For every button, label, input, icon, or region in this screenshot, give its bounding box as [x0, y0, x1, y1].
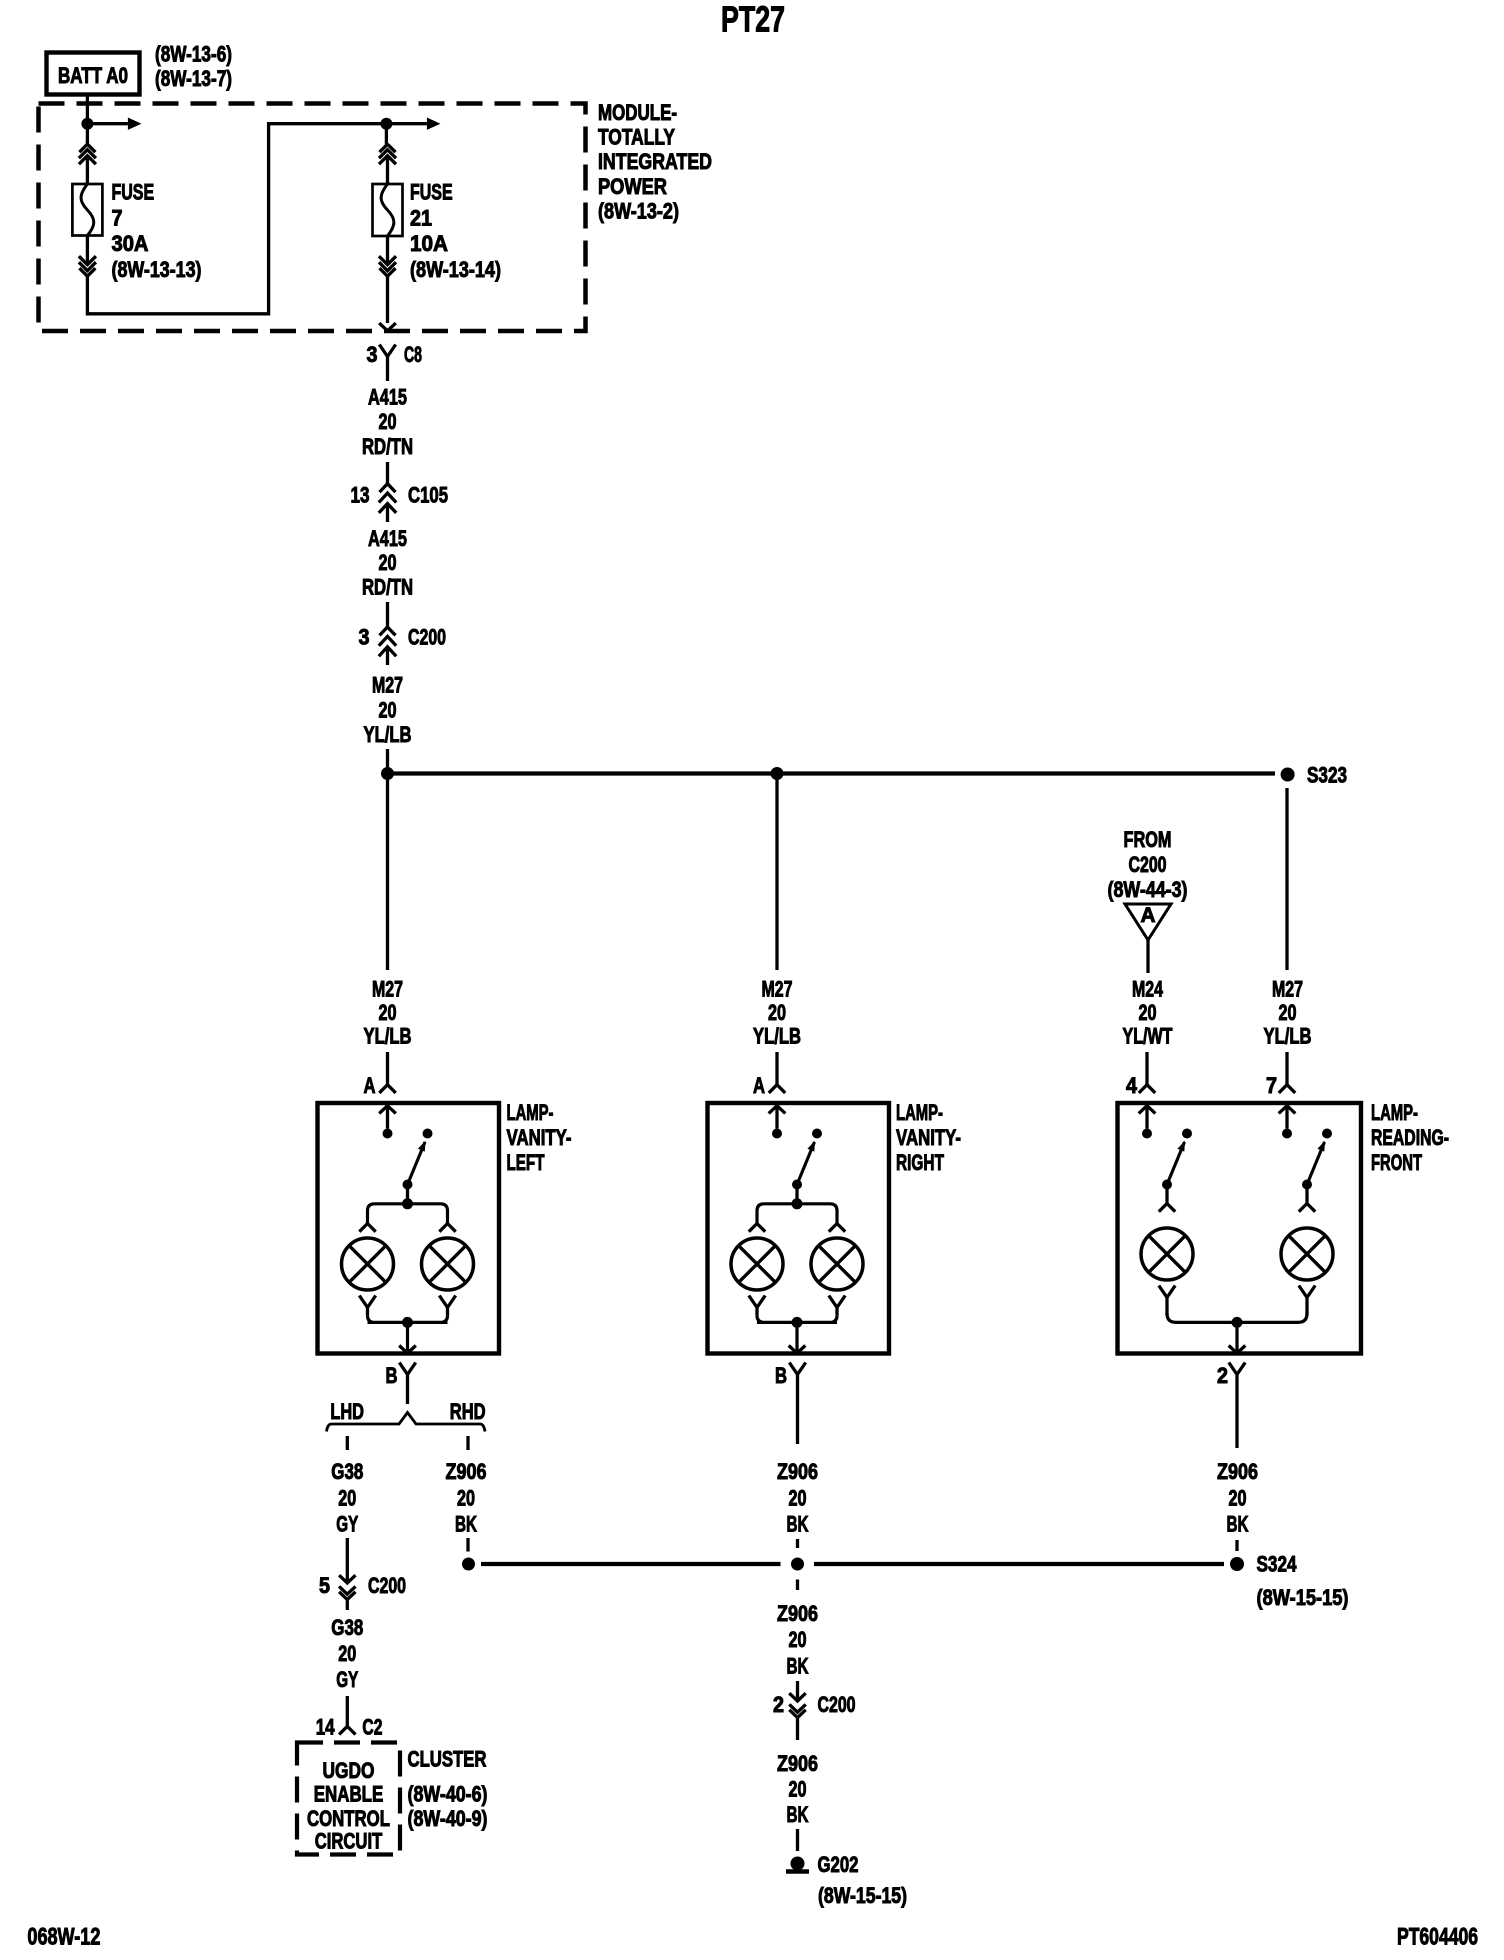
- arrow out of module at C8: [379, 323, 396, 331]
- svg-text:C200: C200: [368, 1573, 406, 1598]
- wire below fuse 21: [386, 236, 389, 265]
- node junction left: [381, 767, 394, 780]
- svg-text:(8W-40-9): (8W-40-9): [408, 1806, 488, 1831]
- svg-text:C105: C105: [408, 483, 448, 508]
- connector pin A vanity right: [769, 1085, 785, 1093]
- wire BATT A0 down to junction: [86, 95, 89, 145]
- svg-text:C200: C200: [1129, 852, 1167, 877]
- connector chevrons below fuse 7: [79, 268, 95, 276]
- lamp reading front internals switch 2: [1279, 1106, 1296, 1114]
- wire to pin 4 reading lamp: [1145, 1052, 1148, 1085]
- svg-text:20: 20: [379, 550, 397, 575]
- svg-text:PT604406: PT604406: [1397, 1924, 1478, 1951]
- svg-text:LHD: LHD: [330, 1399, 364, 1424]
- connector C200 pin 2: [789, 1693, 805, 1701]
- lamp reading front internals switch 1: [1139, 1106, 1156, 1114]
- svg-text:A: A: [364, 1073, 376, 1098]
- svg-text:B: B: [775, 1363, 787, 1388]
- wire down to C200: [386, 602, 389, 627]
- svg-text:068W-12: 068W-12: [27, 1924, 100, 1951]
- svg-text:UGDO: UGDO: [323, 1758, 375, 1783]
- ground G202: [791, 1857, 805, 1871]
- wire stub above S324: [796, 1539, 799, 1548]
- wire below C105: [386, 504, 389, 523]
- svg-text:A: A: [753, 1073, 765, 1098]
- svg-text:G38: G38: [331, 1615, 363, 1640]
- svg-text:14: 14: [316, 1715, 336, 1740]
- svg-text:20: 20: [1229, 1486, 1247, 1511]
- wire stub LHD: [346, 1436, 349, 1450]
- svg-text:30A: 30A: [112, 231, 149, 256]
- tap arrow right (feed continues): [87, 122, 128, 125]
- svg-text:FUSE: FUSE: [112, 180, 155, 205]
- wire into fuse 7: [86, 156, 89, 184]
- svg-text:21: 21: [410, 205, 432, 230]
- svg-text:20: 20: [789, 1486, 807, 1511]
- svg-text:CIRCUIT: CIRCUIT: [315, 1829, 383, 1854]
- node junction RHD: [462, 1558, 475, 1571]
- svg-text:13: 13: [351, 483, 370, 508]
- lamp vanity right box: [708, 1103, 890, 1354]
- svg-text:TOTALLY: TOTALLY: [598, 125, 675, 150]
- svg-text:A: A: [1141, 904, 1156, 927]
- svg-text:2: 2: [773, 1692, 784, 1717]
- wire down to C200 pin 2: [796, 1681, 799, 1700]
- svg-text:CLUSTER: CLUSTER: [408, 1747, 487, 1772]
- svg-text:20: 20: [789, 1627, 807, 1652]
- svg-text:INTEGRATED: INTEGRATED: [598, 149, 712, 174]
- svg-text:M27: M27: [1272, 977, 1303, 1002]
- svg-text:FROM: FROM: [1124, 827, 1172, 852]
- wire below C200: [386, 647, 389, 665]
- wire stub RHD: [466, 1436, 469, 1450]
- wire to pin A vanity left: [386, 1052, 389, 1085]
- off-page connector triangle A: [1125, 904, 1171, 940]
- connector C105 pin 13: [380, 484, 396, 492]
- lamp vanity left box: [318, 1103, 500, 1354]
- svg-text:(8W-15-15): (8W-15-15): [818, 1883, 907, 1908]
- svg-text:BK: BK: [1227, 1512, 1249, 1537]
- svg-text:FRONT: FRONT: [1371, 1150, 1422, 1175]
- svg-text:BATT A0: BATT A0: [58, 63, 128, 88]
- connector chevrons above fuse 7: [79, 144, 95, 152]
- svg-text:A415: A415: [368, 526, 407, 551]
- svg-text:BK: BK: [787, 1654, 809, 1679]
- svg-text:(8W-13-2): (8W-13-2): [598, 198, 679, 223]
- node splice S324: [1230, 1557, 1244, 1571]
- node junction middle: [771, 767, 784, 780]
- svg-text:YL/LB: YL/LB: [364, 1024, 412, 1049]
- svg-text:YL/LB: YL/LB: [364, 722, 412, 747]
- wire fuse 7 output routed to fuse 21 feed: [87, 124, 382, 314]
- splice S323 bus wire: [388, 771, 1276, 775]
- connector chevrons below fuse 21: [380, 268, 396, 276]
- wire below fuse 7: [86, 236, 89, 265]
- module - totally integrated power (dashed box): [39, 104, 586, 332]
- svg-text:C2: C2: [362, 1715, 382, 1740]
- svg-text:20: 20: [1139, 1000, 1157, 1025]
- wire down to C105: [386, 462, 389, 484]
- svg-text:BK: BK: [787, 1802, 809, 1827]
- svg-text:BK: BK: [455, 1512, 477, 1537]
- svg-text:M27: M27: [372, 673, 403, 698]
- wire to module edge: [386, 276, 389, 323]
- wire bus down to vanity left: [386, 774, 389, 971]
- splice S324 bus wire left: [481, 1562, 781, 1566]
- svg-text:(8W-13-7): (8W-13-7): [155, 66, 232, 91]
- wire to pin 7 reading lamp: [1285, 1052, 1288, 1085]
- wire into fuse 21: [386, 156, 389, 184]
- node junction at battery feed: [81, 118, 93, 130]
- svg-text:4: 4: [1126, 1073, 1138, 1098]
- svg-text:3: 3: [367, 342, 378, 367]
- svg-text:POWER: POWER: [598, 174, 667, 199]
- svg-text:(8W-13-6): (8W-13-6): [155, 42, 232, 67]
- svg-text:LEFT: LEFT: [507, 1150, 545, 1175]
- wire stub below S324: [796, 1580, 799, 1591]
- svg-text:VANITY-: VANITY-: [896, 1125, 961, 1150]
- svg-text:Z906: Z906: [1217, 1459, 1258, 1484]
- lamp vanity right internals (switch and bulbs): [769, 1106, 786, 1114]
- wire junction down: [385, 124, 388, 145]
- wire triangle down: [1146, 940, 1149, 973]
- svg-text:7: 7: [112, 205, 123, 230]
- svg-text:20: 20: [457, 1486, 475, 1511]
- svg-text:20: 20: [1279, 1000, 1297, 1025]
- tap arrow right at fuse 21 feed: [386, 122, 427, 125]
- wire below C200 pin 2: [796, 1729, 799, 1740]
- cluster UGDO dashed box: [297, 1743, 400, 1855]
- svg-text:C200: C200: [818, 1692, 856, 1717]
- svg-text:YL/LB: YL/LB: [753, 1024, 801, 1049]
- svg-text:5: 5: [319, 1573, 330, 1598]
- svg-text:FUSE: FUSE: [410, 180, 453, 205]
- svg-text:20: 20: [338, 1641, 356, 1666]
- wire G38 to C2: [346, 1696, 349, 1726]
- svg-text:20: 20: [338, 1486, 356, 1511]
- wire vanity right B down: [796, 1404, 799, 1444]
- connector C200 pin 3: [380, 627, 396, 635]
- svg-text:BK: BK: [787, 1512, 809, 1537]
- svg-text:M24: M24: [1132, 977, 1164, 1002]
- wire reading lamp pin 2 down: [1235, 1404, 1238, 1448]
- connector pin B vanity right: [789, 1363, 805, 1405]
- svg-text:Z906: Z906: [777, 1459, 818, 1484]
- svg-text:A415: A415: [368, 385, 407, 410]
- wire S323 down to reading lamp: [1285, 788, 1288, 970]
- wire to pin A vanity right: [775, 1052, 778, 1085]
- wire G38 down to C200: [346, 1538, 349, 1582]
- svg-text:20: 20: [379, 1000, 397, 1025]
- svg-text:RHD: RHD: [450, 1399, 486, 1424]
- svg-text:(8W-13-13): (8W-13-13): [112, 257, 202, 282]
- LHD RHD selector bracket: [327, 1413, 486, 1432]
- svg-text:VANITY-: VANITY-: [507, 1125, 572, 1150]
- svg-text:CONTROL: CONTROL: [307, 1806, 390, 1831]
- svg-text:20: 20: [379, 409, 397, 434]
- lamp reading front box: [1118, 1103, 1362, 1354]
- wire C8 to label: [386, 369, 389, 382]
- svg-text:G38: G38: [331, 1459, 363, 1484]
- svg-text:10A: 10A: [410, 231, 448, 256]
- fuse F21 10A: [373, 184, 403, 236]
- connector C2 pin 14: [339, 1726, 355, 1734]
- svg-text:3: 3: [359, 625, 370, 650]
- svg-text:GY: GY: [336, 1667, 358, 1692]
- lamp reading front bottom bar: [1167, 1313, 1307, 1322]
- wire to ground G202: [796, 1829, 799, 1851]
- svg-text:LAMP-: LAMP-: [896, 1100, 943, 1125]
- svg-text:C200: C200: [408, 625, 446, 650]
- connector pin 2 reading lamp: [1229, 1363, 1245, 1405]
- node junction vanity right ground: [791, 1558, 804, 1571]
- svg-text:C8: C8: [404, 342, 422, 367]
- svg-text:YL/WT: YL/WT: [1123, 1024, 1173, 1049]
- connector C8 pin 3: [379, 345, 395, 369]
- svg-text:Z906: Z906: [777, 1601, 818, 1626]
- connector chevrons above fuse 21: [380, 144, 396, 152]
- svg-text:(8W-13-14): (8W-13-14): [410, 257, 501, 282]
- svg-text:20: 20: [768, 1000, 786, 1025]
- svg-text:MODULE-: MODULE-: [598, 100, 677, 125]
- lamp vanity left internals (switch and bulbs): [379, 1106, 396, 1114]
- wire RHD down to splice: [466, 1538, 469, 1552]
- fuse F7 30A: [72, 184, 102, 236]
- battery feed box BATT A0: [47, 53, 140, 95]
- connector pin A vanity left: [379, 1085, 395, 1093]
- svg-text:YL/LB: YL/LB: [1264, 1024, 1312, 1049]
- connector C200 pin 5: [339, 1575, 355, 1583]
- svg-text:M27: M27: [372, 977, 403, 1002]
- connector pin 7 reading lamp: [1279, 1085, 1295, 1093]
- svg-text:ENABLE: ENABLE: [314, 1782, 384, 1807]
- svg-text:(8W-15-15): (8W-15-15): [1257, 1585, 1349, 1610]
- wire stub to S324: [1235, 1540, 1238, 1551]
- svg-text:RIGHT: RIGHT: [896, 1150, 944, 1175]
- node splice S323: [1281, 768, 1295, 782]
- svg-text:GY: GY: [336, 1512, 358, 1537]
- node junction fuse 21 feed: [380, 118, 392, 130]
- svg-text:(8W-40-6): (8W-40-6): [408, 1782, 488, 1807]
- svg-text:Z906: Z906: [777, 1751, 818, 1776]
- svg-text:7: 7: [1266, 1073, 1277, 1098]
- svg-text:2: 2: [1217, 1363, 1228, 1388]
- svg-text:M27: M27: [762, 977, 793, 1002]
- svg-text:READING-: READING-: [1371, 1125, 1449, 1150]
- svg-text:S324: S324: [1257, 1552, 1298, 1577]
- connector pin 4 reading lamp: [1139, 1085, 1155, 1093]
- svg-text:20: 20: [789, 1777, 807, 1802]
- svg-text:S323: S323: [1307, 763, 1347, 788]
- svg-text:LAMP-: LAMP-: [507, 1100, 554, 1125]
- connector pin B vanity left: [399, 1363, 415, 1405]
- svg-text:G202: G202: [818, 1852, 859, 1877]
- splice S324 bus wire right: [814, 1562, 1224, 1566]
- svg-text:PT27: PT27: [721, 0, 785, 40]
- wire down to splice bus: [386, 749, 389, 774]
- svg-text:RD/TN: RD/TN: [362, 575, 413, 600]
- svg-text:Z906: Z906: [446, 1459, 487, 1484]
- svg-text:B: B: [386, 1363, 398, 1388]
- svg-text:LAMP-: LAMP-: [1371, 1100, 1418, 1125]
- wire bus down to vanity right: [775, 774, 778, 971]
- svg-text:(8W-44-3): (8W-44-3): [1108, 877, 1188, 902]
- svg-text:RD/TN: RD/TN: [362, 434, 413, 459]
- svg-text:20: 20: [379, 698, 397, 723]
